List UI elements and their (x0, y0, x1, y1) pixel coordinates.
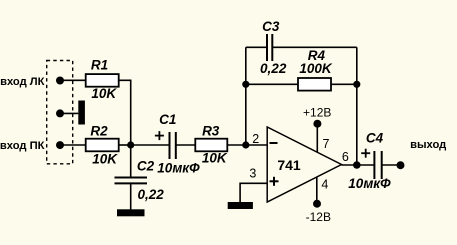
label C1 value 10мкФ (157, 160, 200, 175)
svg-text:2: 2 (252, 132, 259, 146)
label pin 6 (342, 150, 349, 164)
node feedback right junction (353, 81, 360, 88)
svg-text:C1: C1 (159, 112, 176, 127)
label R3 value 10K (202, 151, 228, 166)
wire C3 branch right (272, 46, 357, 48)
node вход ЛК terminal (56, 77, 64, 85)
wire R4 branch left (246, 83, 298, 85)
svg-text:741: 741 (277, 157, 301, 173)
node connector common terminal (56, 109, 64, 117)
wire op-amp pin 3 to ground (240, 183, 267, 202)
label C4 value 10мкФ (348, 176, 391, 191)
svg-text:R3: R3 (202, 124, 220, 139)
wire C1 to R3 (176, 144, 196, 146)
svg-text:R1: R1 (91, 58, 108, 73)
svg-text:100K: 100K (299, 61, 333, 76)
svg-text:10мкФ: 10мкФ (348, 176, 391, 191)
label C2 (137, 158, 155, 173)
label C3 (262, 19, 280, 34)
wire вход ПК terminal to R2 (60, 144, 86, 146)
svg-text:C4: C4 (366, 130, 384, 145)
label R2 (90, 123, 108, 138)
svg-text:вход ЛК: вход ЛК (0, 76, 45, 88)
capacitor C3 (267, 34, 272, 61)
svg-text:6: 6 (342, 150, 349, 164)
node inverting input junction (242, 141, 249, 148)
label R2 value 10K (92, 151, 118, 166)
capacitor C2 (115, 178, 148, 184)
resistor R4 (298, 78, 331, 91)
svg-text:R2: R2 (90, 123, 108, 138)
svg-text:4: 4 (321, 177, 328, 191)
svg-text:+12В: +12В (303, 105, 331, 119)
label R1 value 10K (91, 86, 117, 101)
wire R4 branch right (331, 83, 357, 85)
op-amp non-inverting input marking (270, 177, 279, 186)
label pin 7 (323, 137, 330, 151)
op-amp U1 741 (267, 127, 341, 202)
resistor R2 (86, 139, 119, 152)
wire feedback left riser (245, 47, 247, 145)
input connector dashed box (47, 61, 73, 164)
wire R3 to inverting node (227, 144, 246, 146)
wire R2 to mix node (119, 144, 131, 146)
label pin 4 (321, 177, 328, 191)
label вход ПК (0, 140, 45, 152)
svg-text:7: 7 (323, 137, 330, 151)
svg-text:вход ПК: вход ПК (0, 140, 45, 152)
capacitor C1 (170, 132, 176, 159)
capacitor C4 (374, 151, 381, 179)
wire pin 7 to +12V (316, 124, 318, 152)
wire mix node to C1 (131, 144, 169, 146)
wire pin 6 to C4 (342, 164, 375, 166)
label -12В (306, 210, 331, 224)
wire feedback right riser (356, 47, 358, 165)
wire R1 to mix node (119, 80, 131, 145)
node feedback left junction (242, 81, 249, 88)
label R4 value 100K (299, 61, 333, 76)
label C4 (366, 130, 384, 145)
C1 polarity plus (155, 131, 164, 140)
label 741 (277, 157, 301, 173)
svg-text:3: 3 (249, 167, 256, 181)
label C1 (159, 112, 176, 127)
wire вход ЛК terminal to R1 (60, 79, 86, 81)
node выход terminal (397, 161, 405, 169)
label +12В (303, 105, 331, 119)
wire mix node down to C2 (130, 145, 132, 178)
label вход ЛК (0, 76, 45, 88)
ground at pin 3 (228, 202, 253, 209)
wire inverting node to op-amp pin 2 (246, 144, 267, 146)
svg-text:10мкФ: 10мкФ (157, 160, 200, 175)
svg-text:-12В: -12В (306, 210, 331, 224)
node mix junction (127, 141, 134, 148)
svg-text:0,22: 0,22 (137, 187, 164, 202)
label C2 value 0,22 (137, 187, 164, 202)
svg-text:10K: 10K (91, 86, 117, 101)
label R3 (202, 124, 220, 139)
node вход ПК terminal (56, 141, 64, 149)
label pin 3 (249, 167, 256, 181)
node -12V terminal (313, 200, 321, 208)
svg-text:C3: C3 (262, 19, 280, 34)
wire C4 to output terminal (382, 164, 401, 166)
label выход (410, 139, 446, 151)
node output junction (353, 161, 361, 169)
wire C3 branch left (246, 46, 267, 48)
op-amp inverting input marking (270, 142, 278, 144)
wire pin 4 to -12V (316, 177, 318, 203)
svg-text:10K: 10K (202, 151, 228, 166)
label R1 (91, 58, 108, 73)
svg-text:C2: C2 (137, 158, 155, 173)
svg-text:0,22: 0,22 (260, 61, 287, 76)
wire common terminal to shield bar (60, 112, 78, 114)
label R4 (308, 48, 326, 63)
resistor R3 (195, 139, 227, 152)
node +12V terminal (313, 120, 321, 128)
resistor R1 (86, 74, 119, 87)
label pin 2 (252, 132, 259, 146)
svg-text:выход: выход (410, 139, 446, 151)
ground below C2 (117, 209, 145, 216)
connector shield bar (78, 101, 85, 125)
wire C2 to ground (130, 183, 132, 209)
label C3 value 0,22 (260, 61, 287, 76)
svg-text:10K: 10K (92, 151, 118, 166)
C4 polarity plus (361, 149, 370, 158)
